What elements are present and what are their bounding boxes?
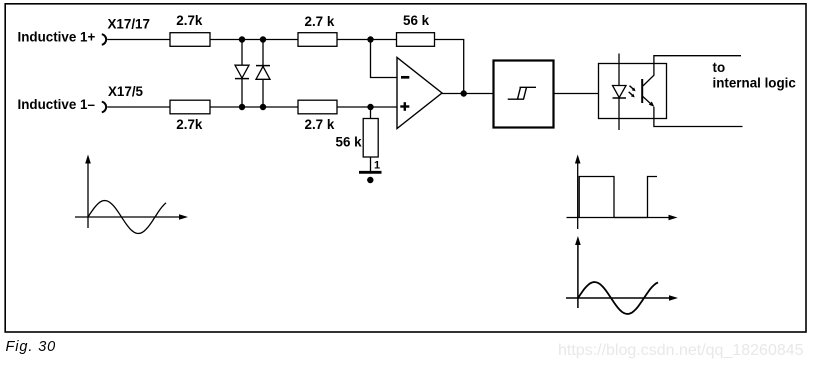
waveform 3 axes <box>566 236 678 308</box>
wire op-amp output <box>442 93 494 95</box>
diode D2 <box>256 66 270 80</box>
junction node <box>239 104 245 110</box>
wire <box>107 106 170 108</box>
waveform 2 axes <box>567 155 678 230</box>
waveform 1 axes <box>75 155 188 229</box>
phototransistor Q1 base bar <box>641 79 643 103</box>
schmitt hysteresis symbol <box>508 87 536 99</box>
svg-text:2.7 k: 2.7 k <box>305 14 335 29</box>
optocoupler box U2 <box>599 64 667 119</box>
resistor R1 2.7k <box>170 33 210 47</box>
junction node <box>367 36 373 42</box>
svg-text:56 k: 56 k <box>403 13 430 28</box>
waveform 1 sine curve <box>88 201 166 234</box>
wire LED anode <box>618 54 620 86</box>
waveform 3 sine curve <box>578 282 658 314</box>
diode D1 <box>235 65 249 78</box>
wire schmitt to opto <box>554 93 599 95</box>
phototransistor emitter <box>643 97 743 127</box>
wire LED cathode <box>618 98 620 130</box>
svg-text:Fig. 30: Fig. 30 <box>6 339 57 355</box>
junction node output <box>461 90 467 96</box>
wire diode branch left <box>241 40 243 108</box>
svg-text:2.7 k: 2.7 k <box>305 117 335 132</box>
svg-text:Inductive 1+: Inductive 1+ <box>18 30 96 45</box>
LED diode <box>613 86 627 99</box>
junction node <box>239 36 245 42</box>
wire to R6 <box>370 107 372 119</box>
resistor R4 2.7 k <box>298 100 337 114</box>
wire diode branch right <box>262 40 264 108</box>
wire <box>210 106 298 108</box>
svg-text:https://blog.csdn.net/qq_18260: https://blog.csdn.net/qq_18260845 <box>558 342 804 359</box>
svg-text:X17/17: X17/17 <box>108 17 150 32</box>
resistor R5 56 k feedback <box>397 33 435 47</box>
junction node <box>367 104 373 110</box>
wire feedback right <box>435 40 464 94</box>
svg-text:Inductive 1–: Inductive 1– <box>18 97 96 112</box>
wire inverting input <box>371 40 398 78</box>
label to internal logic <box>713 60 797 90</box>
op-amp minus symbol <box>401 76 409 79</box>
resistor R6 56 k <box>363 119 378 158</box>
wire <box>337 39 397 41</box>
phototransistor collector <box>643 56 741 86</box>
wire to ground <box>370 157 372 172</box>
resistor R2 2.7k <box>170 100 210 114</box>
svg-text:X17/5: X17/5 <box>108 84 144 99</box>
connector X17/5 <box>102 102 106 113</box>
svg-text:2.7k: 2.7k <box>176 117 203 132</box>
schmitt trigger box <box>494 61 554 128</box>
wire <box>210 39 298 41</box>
op-amp U1 <box>397 58 442 129</box>
svg-text:2.7k: 2.7k <box>176 13 203 28</box>
ground bar <box>359 171 382 174</box>
ground node dot <box>367 177 373 183</box>
svg-text:1: 1 <box>374 160 380 172</box>
wire <box>337 106 397 108</box>
junction node <box>260 104 266 110</box>
connector X17/17 <box>102 34 106 45</box>
wire <box>107 39 170 41</box>
resistor R3 2.7 k <box>298 33 337 47</box>
light arrow 1 <box>630 86 636 92</box>
svg-text:56 k: 56 k <box>336 135 363 150</box>
waveform 2 square wave <box>579 177 657 218</box>
svg-text:to: to <box>713 60 726 75</box>
light arrow 2 <box>629 92 635 98</box>
op-amp plus symbol <box>400 102 409 111</box>
junction node <box>260 36 266 42</box>
svg-text:internal logic: internal logic <box>713 75 797 90</box>
